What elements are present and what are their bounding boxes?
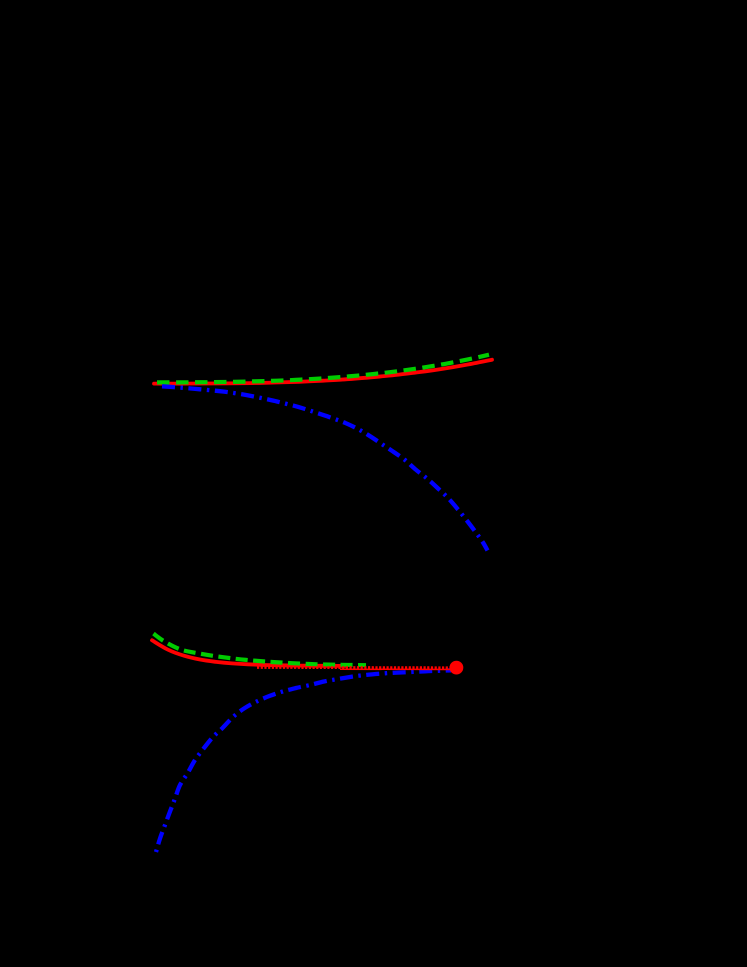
bottom panel: thin red baseline under the dots [340,668,451,670]
bottom panel: blue dash-dot curve rising to asymptote [156,670,451,852]
top panel: green dashed curve [157,355,489,383]
bottom panel: green dashed curve [154,634,367,666]
top panel: red solid curve (stable branch) [154,360,492,384]
bottom panel: red dotted continuation (unstable branch dots) [257,666,451,669]
top panel: blue dash-dot curve (unstable branch) [162,386,488,550]
bottom panel: red solid curve (stable branch) [152,640,346,666]
bottom panel: red filled circle marker (endpoint) [450,661,464,675]
